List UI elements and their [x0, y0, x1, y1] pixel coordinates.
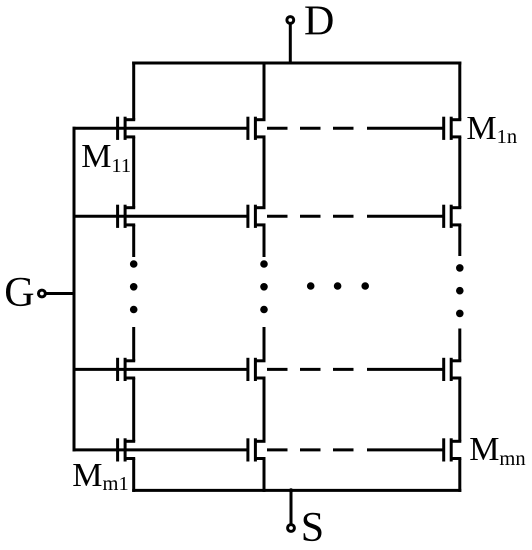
svg-text:D: D: [304, 0, 334, 44]
terminal G: [39, 290, 46, 297]
wire gate row 3 solid: [73, 368, 249, 371]
svg-text:Mmn: Mmn: [469, 431, 525, 470]
wire column 1 below row 2: [132, 225, 135, 257]
wire drain rail (top): [132, 62, 461, 65]
transistor column n row 2: [444, 205, 462, 228]
svg-text:S: S: [301, 505, 324, 550]
wire column 1 row1-row2: [132, 137, 135, 208]
wire column n below row 2: [458, 225, 461, 256]
transistor M11: [118, 117, 136, 140]
wire gate row 2 dashed continuation: [267, 215, 444, 218]
wire S lead: [290, 490, 293, 524]
node S junction: [289, 488, 293, 492]
wire column 2 below row 2: [263, 225, 266, 257]
transistor Mm1: [118, 438, 136, 461]
wire column 1 row3-row4: [132, 378, 135, 441]
wire column n row 4 to source rail: [458, 459, 461, 492]
transistor column 2 row 1: [248, 117, 266, 140]
wire column 1 row 4 to source rail: [132, 459, 135, 492]
wire gate bus (left vertical): [73, 127, 76, 452]
ellipsis column 1 continuation: [130, 260, 138, 313]
wire D lead: [289, 24, 292, 65]
wire gate row 1 solid: [73, 127, 249, 130]
terminal S: [288, 525, 295, 532]
wire column 2 row 4 to source rail: [263, 459, 266, 492]
transistor M1n: [444, 117, 462, 140]
transistor column 2 row 3: [248, 358, 266, 381]
wire G lead: [46, 292, 76, 295]
wire gate row 2 solid: [73, 215, 249, 218]
transistor column n row 3: [444, 358, 462, 381]
wire column 2 row3-row4: [263, 378, 266, 441]
transistor column 1 row 3: [118, 358, 136, 381]
wire source rail (bottom): [132, 489, 461, 492]
wire column 1 above row 3: [132, 327, 135, 361]
svg-text:M1n: M1n: [466, 110, 517, 148]
transistor column 2 row 4: [248, 438, 266, 461]
wire gate row 1 dashed continuation: [267, 127, 444, 130]
wire column 2 above row 3: [263, 327, 266, 361]
wire column 2 row1-row2: [263, 137, 266, 208]
wire column n row1-row2: [458, 137, 461, 208]
ellipsis column n continuation: [456, 264, 464, 317]
wire column 1 drain from rail: [132, 62, 135, 120]
svg-text:M11: M11: [81, 138, 131, 177]
wire column 2 drain from rail: [263, 62, 266, 120]
wire column n row3-row4: [458, 378, 461, 441]
wire gate row 4 dashed continuation: [267, 448, 444, 451]
transistor column 1 row 2: [118, 205, 136, 228]
ellipsis horizontal center: [307, 282, 369, 290]
ellipsis column 2 continuation: [260, 260, 268, 313]
wire gate row 4 solid: [73, 448, 249, 451]
transistor Mmn: [444, 438, 462, 461]
wire column n drain from rail: [458, 62, 461, 120]
wire column n above row 3: [458, 329, 461, 361]
terminal D: [287, 17, 294, 24]
svg-text:G: G: [4, 270, 34, 316]
transistor column 2 row 2: [248, 205, 266, 228]
wire gate row 3 dashed continuation: [267, 368, 444, 371]
svg-text:Mm1: Mm1: [72, 457, 128, 495]
